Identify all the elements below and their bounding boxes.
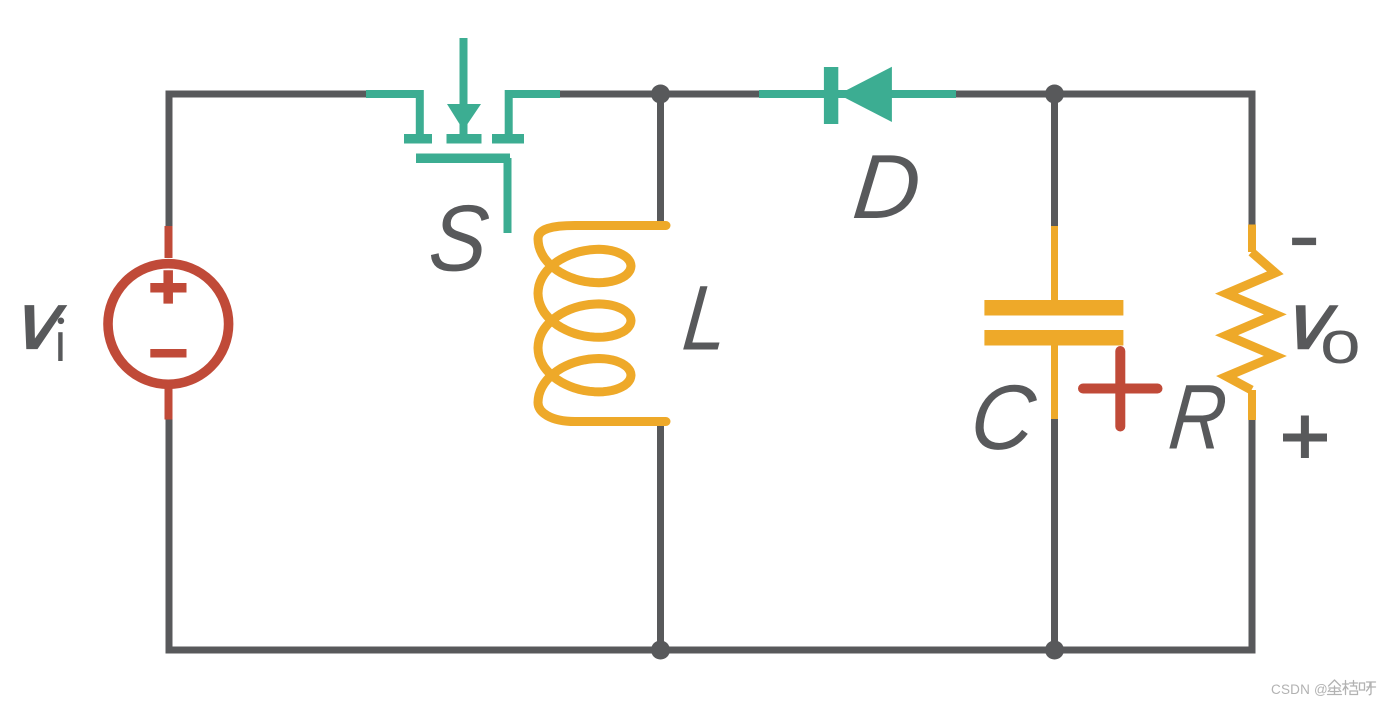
wire inductor branch lower <box>657 421 664 650</box>
wire left vertical lower <box>166 418 173 650</box>
inductor L coil <box>538 226 666 422</box>
resistor R zigzag <box>1227 252 1276 390</box>
wire capacitor branch lower <box>1051 418 1058 650</box>
MOSFET S teal right lead <box>509 94 560 134</box>
capacitor C bottom plate <box>984 330 1123 346</box>
label Vo <box>1296 305 1339 349</box>
wire resistor branch lower <box>1249 418 1256 650</box>
wire top from source to switch <box>169 91 366 98</box>
svg-text:C: C <box>966 367 1041 469</box>
resistor R top lead <box>1248 225 1256 253</box>
MOSFET S teal left lead <box>366 94 420 134</box>
output minus sign (gray) <box>1292 238 1316 245</box>
MOSFET gate bar <box>416 154 510 164</box>
voltage source minus sign <box>150 349 186 358</box>
watermark CJK glyph ya <box>1360 682 1376 695</box>
output plus sign (gray) <box>1283 416 1327 459</box>
voltage source Vi bottom red lead <box>165 388 173 420</box>
watermark CJK glyph jin <box>1328 680 1342 695</box>
svg-text:CSDN @: CSDN @ <box>1271 682 1328 697</box>
MOSFET left pad <box>404 134 432 144</box>
svg-text:S: S <box>425 186 494 291</box>
node D junction dot (bottom, capacitor) <box>1045 641 1064 660</box>
diode cathode bar <box>824 67 838 124</box>
capacitor C bottom lead <box>1051 345 1058 419</box>
capacitor C top lead <box>1051 226 1058 301</box>
voltage source Vi top red lead <box>165 226 173 258</box>
wire node A to diode <box>660 91 762 98</box>
diode triangle <box>838 67 892 122</box>
diode D teal wire <box>759 90 956 98</box>
wire inductor branch upper <box>657 94 664 226</box>
MOSFET right pad <box>492 134 524 144</box>
output plus sign (red) <box>1083 351 1158 427</box>
wire top from switch to node A <box>560 91 660 98</box>
node A junction dot <box>651 85 670 104</box>
resistor R bottom lead <box>1248 390 1256 420</box>
label Vi <box>25 305 68 349</box>
voltage source plus sign <box>150 270 186 303</box>
wire capacitor branch upper <box>1051 94 1058 228</box>
wire left vertical upper (source top lead) <box>166 91 173 229</box>
node C junction dot (bottom, inductor) <box>651 641 670 660</box>
MOSFET gate arrowhead <box>447 104 481 134</box>
svg-text:o: o <box>1320 309 1361 376</box>
MOSFET gate lead down <box>504 158 512 233</box>
MOSFET middle pad <box>447 134 482 144</box>
wire bottom rail <box>166 647 1256 654</box>
wire diode to node B and to top-right corner <box>954 91 1252 98</box>
svg-text:R: R <box>1165 366 1231 469</box>
watermark CJK glyph ju <box>1343 681 1358 695</box>
capacitor C top plate <box>984 300 1123 316</box>
node B junction dot <box>1045 85 1064 104</box>
voltage source Vi circle <box>108 264 229 385</box>
wire resistor branch upper (right side) <box>1249 91 1256 227</box>
svg-text:L: L <box>679 267 733 370</box>
MOSFET gate arrow stem <box>460 38 468 106</box>
svg-text:D: D <box>849 136 925 238</box>
